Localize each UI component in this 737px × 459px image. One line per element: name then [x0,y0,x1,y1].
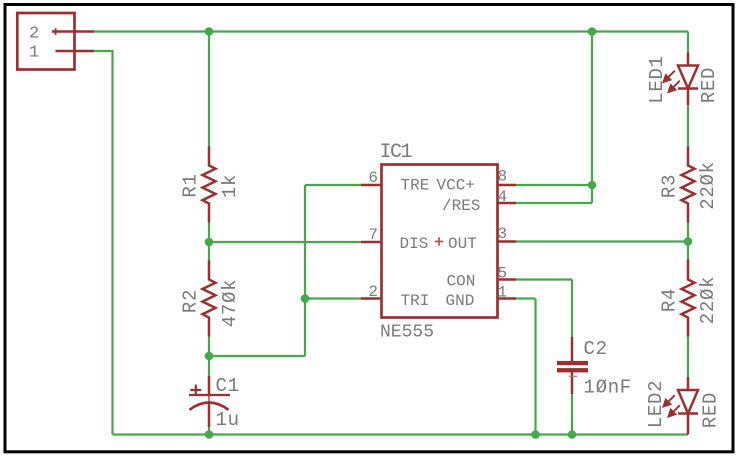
svg-text:R3: R3 [659,174,681,198]
svg-text:1u: 1u [216,409,240,431]
svg-text:4: 4 [498,188,508,206]
svg-text:R2: R2 [180,289,202,313]
svg-text:/RES: /RES [442,197,480,215]
svg-text:22Øk: 22Øk [697,161,719,209]
svg-text:OUT: OUT [448,235,477,253]
svg-text:TRI: TRI [401,292,430,310]
svg-text:1k: 1k [219,174,241,198]
svg-text:5: 5 [498,265,508,283]
svg-text:6: 6 [368,169,378,187]
svg-text:C2: C2 [584,338,608,360]
svg-text:7: 7 [368,226,378,244]
svg-text:1ØnF: 1ØnF [584,377,632,399]
svg-text:C1: C1 [216,375,240,397]
svg-text:LED1: LED1 [646,55,668,103]
svg-text:R4: R4 [659,288,681,312]
svg-text:RED: RED [700,392,722,428]
svg-text:22Øk: 22Øk [697,276,719,324]
svg-text:CON: CON [447,273,476,291]
svg-text:2: 2 [368,283,378,301]
svg-text:RED: RED [698,67,720,103]
svg-text:1: 1 [29,44,39,63]
svg-text:TRE: TRE [401,177,430,195]
svg-text:LED2: LED2 [645,380,667,428]
svg-text:DIS: DIS [400,235,429,253]
svg-text:3: 3 [498,225,508,243]
svg-text:GND: GND [446,292,475,310]
svg-text:VCC+: VCC+ [437,177,475,195]
svg-text:47Øk: 47Øk [219,279,241,327]
svg-text:1: 1 [498,284,508,302]
svg-text:8: 8 [498,168,508,186]
svg-text:NE555: NE555 [380,323,434,343]
svg-text:R1: R1 [180,173,202,197]
svg-text:IC1: IC1 [380,141,413,164]
svg-text:2: 2 [29,25,39,44]
